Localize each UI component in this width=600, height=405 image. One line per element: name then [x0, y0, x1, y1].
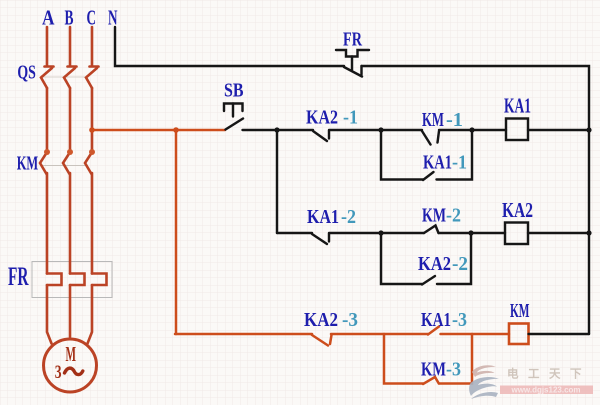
svg-text:3: 3 [55, 361, 62, 383]
svg-text:-1: -1 [343, 107, 358, 129]
svg-text:SB: SB [224, 79, 244, 101]
svg-text:KA1: KA1 [421, 308, 451, 331]
svg-text:-2: -2 [446, 205, 461, 227]
svg-text:KA2: KA2 [304, 309, 338, 332]
svg-text:KM: KM [17, 152, 39, 175]
svg-text:FR: FR [343, 28, 362, 50]
svg-text:www.dgjs123.com: www.dgjs123.com [510, 386, 580, 395]
svg-text:-3: -3 [452, 309, 467, 331]
svg-text:-3: -3 [342, 310, 358, 331]
svg-text:-1: -1 [446, 109, 463, 131]
svg-text:QS: QS [17, 61, 35, 83]
svg-text:B: B [65, 5, 74, 29]
svg-text:-1: -1 [452, 152, 467, 174]
svg-text:KM: KM [510, 300, 529, 322]
svg-text:C: C [87, 5, 96, 29]
svg-text:KA1: KA1 [504, 93, 531, 117]
svg-text:-2: -2 [341, 206, 356, 228]
svg-text:A: A [42, 7, 55, 30]
svg-text:KA1: KA1 [423, 150, 452, 173]
svg-text:电工天下: 电工天下 [507, 367, 591, 381]
svg-text:KA2: KA2 [306, 106, 338, 128]
svg-text:KM: KM [422, 204, 446, 226]
svg-text:FR: FR [8, 262, 29, 291]
svg-text:KM: KM [421, 357, 446, 380]
svg-text:KM: KM [422, 108, 444, 131]
svg-text:M: M [66, 342, 77, 366]
svg-text:KA1: KA1 [307, 205, 339, 227]
svg-text:-3: -3 [446, 359, 461, 381]
svg-text:-2: -2 [452, 254, 468, 275]
svg-text:KA2: KA2 [502, 199, 533, 222]
svg-text:N: N [108, 5, 118, 29]
svg-text:KA2: KA2 [418, 253, 451, 275]
